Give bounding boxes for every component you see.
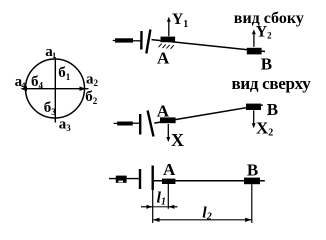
dimension l1 right arrow xyxy=(169,206,178,208)
bottom row: coupling flange 1 xyxy=(139,169,141,189)
top row: coupling flange 2 (tilted) xyxy=(146,30,150,54)
middle row: shaft stub left xyxy=(117,122,133,126)
svg-text:l1: l1 xyxy=(157,190,166,208)
top row: measuring block A xyxy=(161,37,176,43)
svg-text:X: X xyxy=(171,130,184,150)
top row: shaft stub left xyxy=(115,38,133,42)
dimension l2 line xyxy=(153,219,251,221)
svg-text:а3: а3 xyxy=(59,116,72,133)
svg-text:X2: X2 xyxy=(256,119,273,139)
dimension l2 right arrowhead xyxy=(245,218,251,222)
bottom row: shaft stub left xyxy=(116,176,127,183)
extension line at coupling xyxy=(152,190,154,223)
top row: wire shaft to flange xyxy=(133,40,141,42)
bottom row: shaft line A to B xyxy=(154,180,265,182)
middle row: arrow X2 xyxy=(253,110,255,125)
svg-text:вид сверху: вид сверху xyxy=(232,74,312,93)
left arrowhead xyxy=(21,86,28,91)
bottom row: measuring block B xyxy=(244,178,260,185)
svg-text:а1: а1 xyxy=(45,44,56,60)
svg-text:В: В xyxy=(267,100,278,119)
top row: hatch at A xyxy=(159,44,174,49)
rotor circle xyxy=(26,59,85,118)
middle row: measuring block B xyxy=(246,104,261,110)
middle row: coupling flange 2 (tilted) xyxy=(148,111,154,137)
top row: arrow Y2 xyxy=(253,32,255,47)
svg-text:б2: б2 xyxy=(85,89,98,106)
middle row: coupling flange 1 xyxy=(139,114,141,135)
vertical axis line xyxy=(54,57,56,122)
svg-text:А: А xyxy=(163,160,176,179)
bottom row: wire shaft to flange xyxy=(109,178,139,180)
svg-text:А: А xyxy=(157,48,170,67)
middle row: wire shaft to flange xyxy=(133,122,140,124)
top row: coupling flange 1 xyxy=(140,31,143,50)
svg-text:В: В xyxy=(247,160,258,179)
top row: tilted shaft line A to B xyxy=(152,40,266,52)
svg-text:А: А xyxy=(157,101,170,120)
dimension l2 left arrowhead xyxy=(153,218,159,222)
middle row: tilted shaft line A to B xyxy=(154,105,262,123)
middle row: arrow X1 xyxy=(167,124,169,140)
svg-text:а2: а2 xyxy=(86,72,99,89)
middle row: measuring block A xyxy=(160,117,176,123)
svg-text:Y1: Y1 xyxy=(172,11,188,30)
horizontal axis line xyxy=(22,88,89,90)
svg-text:а4: а4 xyxy=(15,74,27,90)
svg-text:б4: б4 xyxy=(31,74,44,91)
bottom row: coupling flange 2 xyxy=(151,166,153,191)
svg-text:б1: б1 xyxy=(58,65,71,82)
svg-text:l2: l2 xyxy=(202,205,211,223)
dimension l1 left arrow xyxy=(141,206,152,208)
extension line at A xyxy=(167,184,169,209)
svg-text:вид сбоку: вид сбоку xyxy=(234,10,304,27)
extension line at B xyxy=(251,184,253,223)
svg-text:В: В xyxy=(261,55,272,74)
top row: measuring block B xyxy=(247,48,262,55)
right arrowhead xyxy=(80,86,86,91)
svg-text:б3: б3 xyxy=(44,100,57,117)
bottom row: measuring block A xyxy=(162,179,175,184)
top row: arrow Y1 xyxy=(168,20,170,37)
